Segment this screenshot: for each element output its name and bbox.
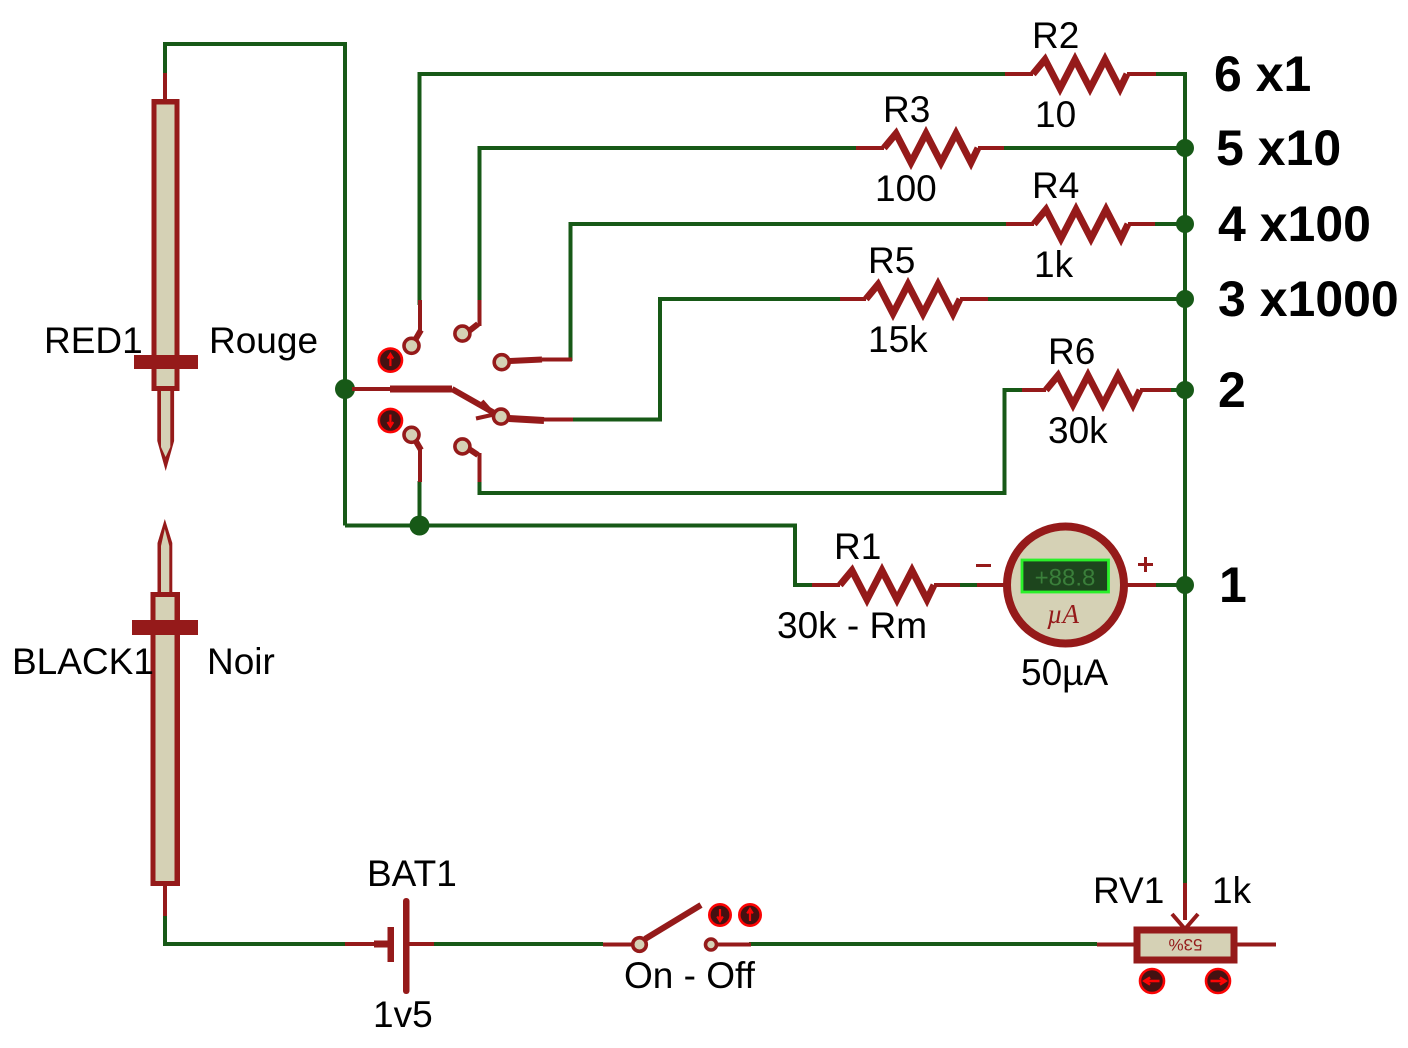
RV1 decrement button [1140, 969, 1164, 993]
svg-text:1k: 1k [1212, 870, 1252, 911]
wire probe RED1 to switch pole [165, 44, 345, 526]
svg-text:R1: R1 [834, 526, 881, 567]
wire bus node6 to node1 [1156, 74, 1185, 585]
RV1 increment button [1206, 969, 1230, 993]
svg-text:30k - Rm: 30k - Rm [777, 605, 927, 646]
switch SW1 left contact [633, 938, 647, 952]
rotary switch contact 6 lead [414, 300, 421, 342]
potentiometer RV1 [1097, 883, 1276, 960]
switch SW1 On-Off arm [603, 905, 751, 945]
node 1 junction [1176, 576, 1194, 594]
rotary switch contact 4 lead [510, 360, 572, 362]
svg-text:+88.8: +88.8 [1035, 565, 1096, 592]
wire contact5 to R3 [480, 148, 857, 305]
rotary switch increment button [379, 349, 402, 372]
rotary switch contact 5 lead [469, 300, 480, 331]
svg-text:On - Off: On - Off [624, 955, 756, 996]
resistor R3 [856, 134, 1004, 163]
svg-text:30k: 30k [1048, 410, 1108, 451]
meter minus pin label [976, 564, 991, 567]
rotary switch contact 5 [455, 326, 470, 341]
wire contact2 down [418, 481, 422, 526]
svg-text:RV1: RV1 [1093, 870, 1164, 911]
meter plus pin label [1138, 557, 1153, 572]
red probe RED1 [134, 73, 198, 471]
svg-text:BAT1: BAT1 [367, 853, 457, 894]
node 5 junction [1176, 139, 1194, 157]
switch SW1 right contact [706, 939, 717, 950]
wire contact1 to R6 [480, 390, 1023, 493]
wire meter to node1 [1154, 583, 1185, 587]
switch SW1 toggle button up [739, 904, 760, 925]
wire R5 to node3 [988, 297, 1185, 301]
black probe BLACK1 [132, 519, 198, 916]
microammeter U1 [977, 527, 1156, 644]
wire R6 to node2 [1171, 388, 1185, 392]
svg-text:RED1: RED1 [44, 320, 143, 361]
wire pole contact to R5 [571, 299, 840, 420]
svg-text:R2: R2 [1032, 15, 1079, 56]
node 4 junction [1176, 215, 1194, 233]
svg-text:3 x1000: 3 x1000 [1218, 271, 1399, 327]
junction common node [410, 516, 430, 536]
rotary switch decrement button [379, 409, 402, 432]
svg-text:53%: 53% [1168, 935, 1202, 954]
svg-text:1: 1 [1219, 557, 1247, 613]
rotary switch contact 4 [494, 355, 509, 370]
wire switch to RV1 [749, 942, 1097, 946]
rotary switch contact 1 lead [469, 449, 480, 482]
svg-text:µA: µA [1047, 599, 1080, 629]
switch SW1 toggle button down [709, 904, 730, 925]
battery BAT1 [345, 898, 434, 994]
resistor R1 [812, 571, 960, 600]
rotary switch contact 6 [404, 338, 419, 353]
rotary switch pole arm [352, 389, 496, 419]
svg-text:2: 2 [1218, 362, 1246, 418]
svg-text:Noir: Noir [207, 641, 275, 682]
svg-text:R4: R4 [1032, 165, 1079, 206]
svg-text:1k: 1k [1034, 244, 1074, 285]
wire R1 to meter [960, 583, 977, 587]
rotary switch contact 2 [404, 427, 419, 442]
wire contact6 to R2 [420, 74, 1006, 305]
resistor R5 [840, 285, 988, 314]
wire probe BLACK1 to battery [165, 915, 345, 944]
wire contact4 to R4 [571, 224, 1007, 361]
resistor R6 [1022, 376, 1171, 405]
svg-text:4 x100: 4 x100 [1218, 196, 1371, 252]
wire R3 to node5 [1004, 146, 1185, 150]
rotary switch contact 1 [455, 439, 470, 454]
svg-text:R6: R6 [1048, 331, 1095, 372]
wire switch common to R1 [345, 526, 812, 586]
rotary switch contact 3 (selected) lead [509, 419, 573, 421]
svg-text:5 x10: 5 x10 [1216, 120, 1341, 176]
svg-text:50µA: 50µA [1021, 652, 1108, 693]
svg-text:6 x1: 6 x1 [1214, 46, 1311, 102]
resistor R2 [1005, 60, 1156, 89]
resistor R4 [1006, 210, 1155, 239]
svg-text:R5: R5 [868, 240, 915, 281]
svg-text:1v5: 1v5 [373, 994, 433, 1035]
svg-text:BLACK1: BLACK1 [12, 641, 154, 682]
wire R4 to node4 [1155, 222, 1185, 226]
rotary switch contact 2 lead [414, 438, 421, 482]
svg-text:10: 10 [1035, 94, 1076, 135]
svg-text:Rouge: Rouge [209, 320, 318, 361]
svg-text:100: 100 [875, 168, 937, 209]
wire battery to switch [434, 942, 603, 946]
rotary switch contact 3 selected [494, 409, 509, 424]
wire node1 down to RV1 [1183, 585, 1187, 883]
node 3 junction [1176, 290, 1194, 308]
svg-text:R3: R3 [883, 89, 930, 130]
svg-text:15k: 15k [868, 319, 928, 360]
node 2 junction [1176, 381, 1194, 399]
junction switch pole node [335, 379, 355, 399]
